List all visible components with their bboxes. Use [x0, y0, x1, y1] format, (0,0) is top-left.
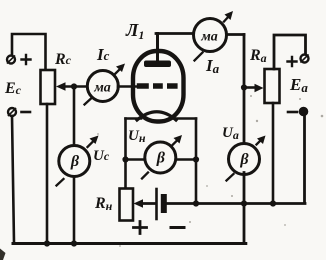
scan smudge bottom-left corner [0, 249, 6, 260]
resistor Rc [41, 70, 56, 104]
svg-text:Rс: Rс [54, 51, 72, 68]
junction right vertical on battery bus [241, 200, 247, 206]
junction grid node [71, 83, 77, 89]
wire battery bus right section [167, 202, 305, 205]
svg-text:β: β [156, 150, 166, 167]
tube U1 envelope [133, 51, 184, 122]
wire right vertical lower [243, 173, 246, 243]
wire anode to Ia meter [156, 32, 194, 35]
voltmeter Ua [227, 136, 266, 181]
wire Uc branch upper [73, 87, 76, 147]
junction Ra bottom on bus [270, 200, 276, 206]
wire meter to tube grid [118, 85, 137, 88]
wire tap arrow into Ra [244, 84, 264, 92]
wire cathode loop left vertical [124, 119, 127, 189]
wire from − terminal down left side [12, 116, 14, 243]
junction Un left [122, 156, 128, 162]
svg-text:Ес: Ес [4, 80, 22, 97]
junction on bottom line (Uc lead) [71, 240, 77, 246]
wire Uc branch lower [73, 177, 76, 244]
label − (Ea) [288, 111, 297, 114]
wire Rc bottom lead [46, 104, 49, 243]
label − (battery) [171, 226, 184, 229]
battery short thick plate [161, 194, 167, 213]
wire right vertical upper [243, 35, 246, 146]
junction Un right [193, 156, 199, 162]
battery long plate [155, 189, 158, 219]
label + (battery) [134, 222, 147, 234]
wire cathode loop right vertical [195, 119, 198, 203]
svg-text:ма: ма [200, 30, 218, 45]
label − (Ec) [22, 111, 31, 114]
svg-text:Iс: Iс [96, 45, 110, 64]
svg-text:Uн: Uн [128, 128, 146, 145]
junction cathode loop right on bus [193, 200, 199, 206]
label + (Ea) [288, 57, 297, 66]
wire Ra top to + Ea terminal [274, 35, 306, 69]
ammeter Ic (ма) [85, 64, 126, 105]
svg-text:β: β [70, 153, 80, 170]
terminal − of Ec [8, 108, 16, 116]
wire Ia to right vertical [227, 33, 245, 36]
voltmeter Uc [57, 136, 99, 186]
wire Ra bottom lead [272, 103, 275, 203]
terminal + of Ec [7, 56, 15, 64]
ammeter Ia (ма) [194, 11, 234, 61]
anode plate [144, 61, 171, 68]
wire battery bus with tap arrow into Rn [134, 199, 157, 207]
svg-text:Uа: Uа [222, 125, 239, 142]
resistor Rn [120, 189, 134, 221]
svg-text:β: β [239, 151, 249, 168]
svg-text:Uс: Uс [93, 148, 110, 164]
junction on bottom line (Rc lead) [44, 240, 50, 246]
terminal − of Ea [300, 108, 308, 116]
wire anode lead [156, 34, 159, 62]
terminal + of Ea [301, 55, 309, 63]
cathode arc [137, 112, 176, 120]
wire grid line with tap arrow into Rc [56, 82, 85, 90]
grid dashed electrode [137, 83, 178, 89]
label + (Ec) [22, 55, 31, 64]
voltmeter Un [126, 135, 197, 179]
svg-text:ма: ма [93, 81, 111, 96]
wire bottom bus line [13, 242, 246, 245]
wire cathode loop top segments [126, 117, 197, 120]
wire − Ea down to battery bus [303, 115, 306, 203]
scan speckles [97, 95, 323, 247]
wire top-left loop Ec+ to Rc top [12, 34, 46, 70]
resistor Ra [265, 69, 280, 103]
junction Ra tap node [241, 84, 247, 90]
